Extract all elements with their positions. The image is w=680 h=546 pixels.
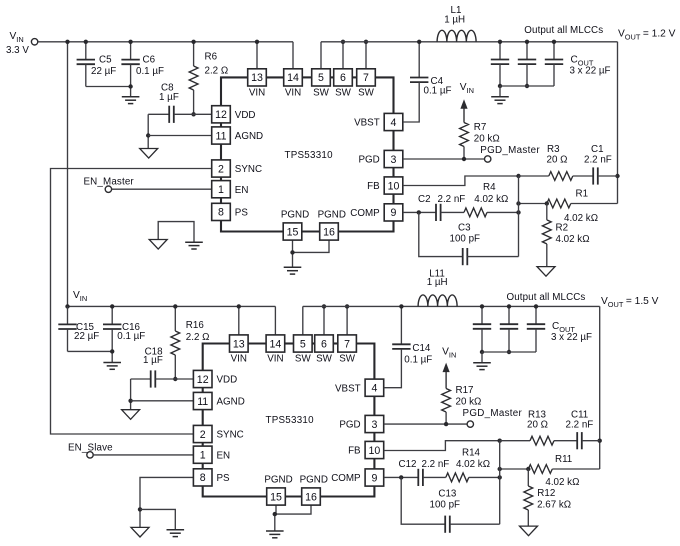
svg-text:FB: FB bbox=[367, 181, 380, 192]
svg-text:4.02 kΩ: 4.02 kΩ bbox=[545, 477, 579, 488]
svg-text:7: 7 bbox=[363, 72, 369, 84]
svg-text:8: 8 bbox=[200, 472, 206, 484]
svg-text:4.02 kΩ: 4.02 kΩ bbox=[456, 459, 490, 470]
svg-text:3 x 22 µF: 3 x 22 µF bbox=[570, 65, 611, 76]
svg-text:0.1 µF: 0.1 µF bbox=[117, 331, 145, 342]
svg-text:Output all MLCCs: Output all MLCCs bbox=[507, 292, 586, 303]
svg-text:12: 12 bbox=[215, 109, 227, 121]
svg-text:4: 4 bbox=[371, 383, 377, 395]
svg-text:R1: R1 bbox=[576, 189, 589, 200]
svg-text:C6: C6 bbox=[143, 54, 156, 65]
svg-text:20 Ω: 20 Ω bbox=[547, 154, 568, 165]
svg-text:SYNC: SYNC bbox=[235, 164, 262, 175]
svg-text:11: 11 bbox=[197, 396, 208, 408]
svg-text:EN: EN bbox=[217, 450, 231, 461]
svg-text:C5: C5 bbox=[99, 54, 112, 65]
svg-text:R12: R12 bbox=[537, 488, 555, 499]
svg-text:22 µF: 22 µF bbox=[91, 66, 116, 77]
svg-text:SYNC: SYNC bbox=[217, 430, 244, 441]
svg-text:13: 13 bbox=[233, 338, 245, 350]
svg-text:10: 10 bbox=[388, 180, 400, 192]
svg-text:0.1 µF: 0.1 µF bbox=[136, 66, 164, 77]
svg-text:VIN: VIN bbox=[249, 87, 265, 98]
svg-text:Output all MLCCs: Output all MLCCs bbox=[524, 25, 603, 36]
svg-text:7: 7 bbox=[344, 338, 350, 350]
svg-text:VIN: VIN bbox=[267, 353, 283, 364]
svg-text:2.2 nF: 2.2 nF bbox=[438, 194, 466, 205]
svg-text:5: 5 bbox=[318, 72, 324, 84]
svg-text:SW: SW bbox=[335, 87, 352, 98]
svg-text:R6: R6 bbox=[205, 51, 218, 62]
svg-text:1: 1 bbox=[200, 450, 206, 462]
svg-text:1 µF: 1 µF bbox=[143, 355, 163, 366]
svg-text:R16: R16 bbox=[186, 320, 205, 331]
svg-text:C2: C2 bbox=[418, 194, 431, 205]
svg-text:VIN: VIN bbox=[285, 87, 301, 98]
svg-text:20 kΩ: 20 kΩ bbox=[474, 133, 500, 144]
svg-text:15: 15 bbox=[270, 491, 282, 503]
svg-text:6: 6 bbox=[321, 338, 327, 350]
svg-text:2.2 Ω: 2.2 Ω bbox=[186, 332, 210, 343]
svg-text:C3: C3 bbox=[458, 223, 471, 234]
svg-text:1 µH: 1 µH bbox=[444, 15, 465, 26]
svg-text:2.67 kΩ: 2.67 kΩ bbox=[537, 499, 571, 510]
svg-text:R14: R14 bbox=[462, 447, 481, 458]
svg-text:VIN: VIN bbox=[231, 353, 247, 364]
svg-text:4.02 kΩ: 4.02 kΩ bbox=[564, 213, 598, 224]
svg-text:1 µH: 1 µH bbox=[427, 277, 448, 288]
svg-text:AGND: AGND bbox=[235, 131, 263, 142]
svg-text:PGD: PGD bbox=[358, 155, 379, 166]
svg-text:10: 10 bbox=[369, 445, 381, 457]
svg-text:SW: SW bbox=[313, 87, 330, 98]
svg-text:5: 5 bbox=[300, 338, 306, 350]
svg-text:R11: R11 bbox=[555, 454, 572, 465]
svg-text:11: 11 bbox=[216, 130, 227, 142]
svg-text:R17: R17 bbox=[456, 385, 474, 396]
svg-text:2: 2 bbox=[200, 429, 206, 441]
svg-text:VBST: VBST bbox=[354, 118, 380, 129]
svg-text:EN_Slave: EN_Slave bbox=[68, 442, 113, 453]
svg-text:0.1 µF: 0.1 µF bbox=[424, 85, 452, 96]
svg-text:C14: C14 bbox=[412, 343, 431, 354]
svg-text:100 pF: 100 pF bbox=[430, 499, 461, 510]
svg-text:1 µF: 1 µF bbox=[159, 92, 179, 103]
svg-text:TPS53310: TPS53310 bbox=[266, 415, 315, 426]
svg-text:TPS53310: TPS53310 bbox=[285, 150, 334, 161]
svg-text:PGD: PGD bbox=[339, 420, 360, 431]
svg-text:R7: R7 bbox=[474, 122, 487, 133]
svg-text:14: 14 bbox=[270, 338, 282, 350]
svg-text:COMP: COMP bbox=[331, 473, 361, 484]
svg-text:100 pF: 100 pF bbox=[450, 234, 481, 245]
svg-text:2: 2 bbox=[218, 163, 224, 175]
svg-text:PGD_Master: PGD_Master bbox=[463, 408, 523, 419]
svg-text:9: 9 bbox=[391, 207, 397, 219]
svg-text:9: 9 bbox=[371, 472, 377, 484]
svg-text:2.2 nF: 2.2 nF bbox=[566, 420, 594, 431]
svg-text:1: 1 bbox=[218, 184, 224, 196]
svg-text:13: 13 bbox=[251, 72, 263, 84]
svg-text:4.02 kΩ: 4.02 kΩ bbox=[474, 194, 508, 205]
svg-text:22 µF: 22 µF bbox=[74, 331, 99, 342]
svg-text:20 kΩ: 20 kΩ bbox=[456, 396, 482, 407]
svg-text:FB: FB bbox=[348, 446, 361, 457]
svg-text:PGND: PGND bbox=[264, 475, 292, 486]
svg-text:16: 16 bbox=[323, 226, 335, 238]
svg-text:PS: PS bbox=[217, 473, 231, 484]
svg-text:SW: SW bbox=[316, 353, 333, 364]
svg-text:2.2 nF: 2.2 nF bbox=[422, 459, 450, 470]
svg-text:6: 6 bbox=[340, 72, 346, 84]
svg-text:3: 3 bbox=[391, 154, 397, 166]
svg-text:8: 8 bbox=[218, 207, 224, 219]
svg-text:R4: R4 bbox=[483, 182, 496, 193]
svg-text:PGND: PGND bbox=[300, 475, 328, 486]
svg-text:COMP: COMP bbox=[350, 208, 380, 219]
svg-text:20 Ω: 20 Ω bbox=[527, 420, 548, 431]
svg-text:EN_Master: EN_Master bbox=[84, 177, 135, 188]
svg-text:C12: C12 bbox=[399, 459, 417, 470]
svg-text:15: 15 bbox=[287, 226, 299, 238]
svg-text:VDD: VDD bbox=[235, 110, 256, 121]
svg-text:PGND: PGND bbox=[318, 210, 346, 221]
svg-text:C13: C13 bbox=[438, 488, 457, 499]
svg-text:AGND: AGND bbox=[217, 397, 245, 408]
svg-text:14: 14 bbox=[287, 72, 299, 84]
svg-text:2.2 nF: 2.2 nF bbox=[584, 154, 612, 165]
svg-text:PGND: PGND bbox=[281, 210, 309, 221]
svg-text:0.1 µF: 0.1 µF bbox=[404, 355, 432, 366]
svg-text:3.3 V: 3.3 V bbox=[6, 45, 29, 56]
svg-text:SW: SW bbox=[295, 353, 312, 364]
svg-text:3: 3 bbox=[371, 419, 377, 431]
svg-text:12: 12 bbox=[197, 374, 209, 386]
svg-text:4: 4 bbox=[391, 117, 397, 129]
svg-text:SW: SW bbox=[358, 87, 375, 98]
svg-text:VDD: VDD bbox=[217, 375, 238, 386]
svg-text:PS: PS bbox=[235, 208, 249, 219]
svg-text:16: 16 bbox=[305, 491, 317, 503]
svg-text:R2: R2 bbox=[556, 223, 569, 234]
svg-text:EN: EN bbox=[235, 185, 249, 196]
svg-text:SW: SW bbox=[339, 353, 356, 364]
svg-text:2.2 Ω: 2.2 Ω bbox=[205, 65, 229, 76]
svg-text:3 x 22 µF: 3 x 22 µF bbox=[551, 332, 592, 343]
svg-text:VBST: VBST bbox=[335, 383, 361, 394]
svg-text:4.02 kΩ: 4.02 kΩ bbox=[556, 234, 590, 245]
svg-text:PGD_Master: PGD_Master bbox=[480, 145, 540, 156]
